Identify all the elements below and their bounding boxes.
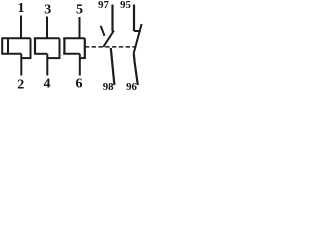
wire bottom pole 1 [20, 54, 22, 76]
heater element pole 1 outer left wall [1, 38, 3, 54]
heater element pole 3 bottom bar [80, 57, 85, 59]
svg-text:2: 2 [17, 78, 24, 93]
wire top pole 1 [20, 16, 22, 39]
heater element pole 3 left wall [63, 38, 65, 54]
svg-text:4: 4 [44, 77, 51, 92]
svg-text:6: 6 [76, 77, 83, 92]
heater element pole 3 top bar [63, 37, 85, 39]
wire bottom NC contact 96 [134, 54, 138, 85]
heater element pole 3 right wall [84, 38, 86, 59]
wire bottom NO contact 98 [111, 48, 115, 85]
heater element pole 2 bottom bar [47, 57, 59, 59]
NC contact moving blade [134, 24, 142, 54]
wire top NO contact 97 [111, 5, 113, 32]
mechanical linkage dashed line [85, 46, 136, 48]
svg-text:98: 98 [103, 81, 114, 93]
wire top pole 2 [46, 17, 48, 39]
wire top pole 3 [79, 17, 81, 38]
heater element pole 1 bottom bar [21, 57, 30, 59]
NO contact moving blade [103, 31, 114, 47]
svg-text:3: 3 [44, 3, 51, 18]
heater element pole 1 inner left wall [7, 38, 9, 54]
svg-text:96: 96 [126, 81, 137, 93]
heater element pole 1 right wall [30, 38, 32, 59]
wire bottom pole 2 [46, 54, 48, 76]
svg-text:95: 95 [120, 0, 131, 11]
heater element pole 2 middle bar [34, 53, 47, 55]
svg-text:5: 5 [76, 3, 83, 18]
NC contact stop tick [134, 30, 141, 32]
heater element pole 2 left wall [34, 38, 36, 54]
svg-text:97: 97 [98, 0, 109, 11]
wire bottom pole 3 [79, 54, 81, 76]
trip actuator slash [101, 26, 105, 36]
wire top NC contact 95 [133, 5, 135, 32]
svg-text:1: 1 [18, 1, 25, 16]
heater element pole 1 middle bar [1, 53, 21, 55]
heater element pole 3 middle bar [63, 53, 80, 55]
heater element pole 1 top bar [1, 37, 30, 39]
heater element pole 2 top bar [34, 37, 60, 39]
heater element pole 2 right wall [59, 38, 61, 59]
